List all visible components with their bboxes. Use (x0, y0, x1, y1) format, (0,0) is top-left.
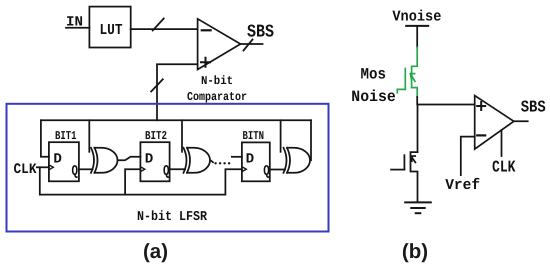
wire node down to M2 (417, 105, 419, 153)
xor gate XOR2 (184, 148, 187, 173)
bus slash on output (244, 40, 253, 51)
wire into BITN D (232, 156, 242, 158)
wire clock riser to BIT2 (125, 169, 140, 194)
wire BITN Q to XOR3 (270, 169, 285, 171)
svg-text:Q: Q (72, 163, 79, 180)
ground (405, 201, 431, 203)
svg-text:Vnoise: Vnoise (392, 9, 441, 26)
wire XOR1 out to BIT2 D (118, 157, 140, 161)
plus sign (477, 102, 485, 110)
svg-text:CLK: CLK (14, 162, 37, 178)
svg-text:N-bit LFSR: N-bit LFSR (137, 210, 208, 225)
svg-text:LUT: LUT (100, 21, 123, 39)
wire tap to XOR3 top input (280, 120, 282, 152)
op-amp N-bit comparator (198, 19, 241, 70)
wire IN to LUT (underline) (66, 27, 89, 29)
svg-text:D: D (246, 151, 255, 167)
svg-text:CLK: CLK (492, 158, 516, 177)
flip-flop BITN (242, 142, 270, 181)
svg-text:BIT2: BIT2 (145, 129, 167, 143)
wire plus input to LFSR feedback (157, 64, 198, 120)
wire comparator output (241, 43, 263, 45)
xor gate XOR1 (91, 148, 94, 173)
svg-text:SBS: SBS (247, 23, 274, 43)
box N-bit LFSR (7, 104, 329, 232)
flip-flop BIT1 (49, 142, 79, 181)
block LUT (89, 7, 130, 48)
wire node to plus input (417, 97, 475, 105)
wire Vref to minus input (461, 137, 475, 176)
wire feedback top rail (41, 119, 311, 121)
wire LUT to comparator minus input (131, 28, 198, 30)
wire clock bottom rail (40, 167, 242, 194)
flip-flop BIT2 (140, 142, 169, 181)
bus slash on plus input (151, 79, 163, 91)
svg-text:(a): (a) (143, 240, 168, 263)
minus sign (202, 29, 211, 31)
minus sign (477, 134, 485, 136)
svg-text:Vref: Vref (445, 177, 480, 194)
svg-text:D: D (53, 151, 62, 167)
svg-text:Mos: Mos (361, 66, 387, 84)
xor gate XOR3 (284, 148, 287, 173)
svg-text:Q: Q (163, 163, 170, 180)
wire CLK to comparator (501, 130, 503, 156)
bus slash on LUT wire (153, 19, 164, 31)
svg-text:Comparator: Comparator (187, 90, 247, 104)
node ellipsis dots (214, 162, 230, 164)
wire BIT2 Q to XOR2 (170, 168, 185, 170)
transistor M2 (black) (411, 152, 418, 202)
svg-text:SBS: SBS (521, 98, 546, 117)
svg-text:BITN: BITN (243, 129, 265, 143)
svg-text:N-bit: N-bit (201, 74, 233, 88)
svg-text:BIT1: BIT1 (55, 129, 77, 143)
wire output SBS (514, 120, 528, 122)
wire XOR3 out to feedback rail (310, 120, 313, 160)
svg-text:Q: Q (263, 163, 270, 180)
svg-text:D: D (145, 151, 154, 167)
wire XOR2 out stub (211, 160, 214, 162)
supply bar Vnoise (406, 25, 428, 27)
wire tap to XOR1 top input (88, 120, 90, 152)
wire tap to XOR2 top input (181, 120, 183, 152)
svg-text:Noise: Noise (351, 88, 396, 106)
wire feedback to BIT1 D (41, 120, 49, 157)
plus sign (201, 58, 210, 67)
op-amp comparator (b) (475, 96, 514, 150)
wire Vnoise down (416, 26, 418, 48)
transistor M1 Mos Noise (green) (397, 48, 417, 98)
wire BIT1 Q to XOR1 (79, 168, 93, 170)
svg-text:(b): (b) (402, 240, 428, 263)
wire CLK to BIT1 clock (37, 166, 49, 168)
